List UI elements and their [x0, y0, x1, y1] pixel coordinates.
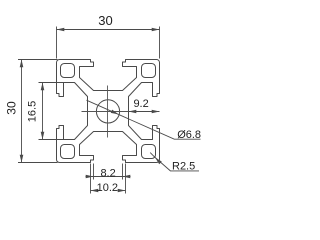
- leader line dia 6.8: [87, 100, 201, 139]
- corner cavity bottom-right: [142, 145, 156, 159]
- corner cavity top-right: [142, 64, 156, 78]
- dim 10.2: right extension line: [125, 164, 127, 194]
- dim 16.5: dimension line: [42, 83, 44, 140]
- dim 30 left: bottom extension line: [18, 162, 58, 164]
- svg-text:R2.5: R2.5: [172, 161, 195, 173]
- dim 9.2: dimension line: [129, 111, 160, 113]
- dim 8.2: right extension line: [122, 164, 124, 180]
- dim 10.2: dimension line left segment: [91, 190, 97, 192]
- svg-text:16.5: 16.5: [26, 101, 38, 122]
- corner cavity bottom-left: [61, 145, 75, 159]
- center bore circle dia 6.8: [96, 100, 119, 123]
- dim 30 top: dimension line: [57, 29, 160, 31]
- dim 9.2 right arrow: [152, 110, 160, 114]
- dim 16.5 bottom arrow: [41, 132, 45, 140]
- svg-text:30: 30: [5, 101, 19, 115]
- dim 8.2 right outside arrow: [123, 175, 131, 179]
- dim 30 top: left extension line: [56, 27, 58, 59]
- dim 30 left: top extension line: [18, 59, 58, 61]
- svg-text:10.2: 10.2: [97, 182, 118, 194]
- leader line R2.5: [150, 153, 199, 171]
- dim 8.2: dimension line with outside tails: [86, 176, 131, 178]
- dim 16.5: bottom extension line: [39, 139, 65, 141]
- dim 9.2 left arrow: [129, 110, 137, 114]
- dim 10.2: dimension line right segment: [119, 190, 126, 192]
- dim 30 left bottom arrow: [20, 155, 24, 163]
- dim 10.2 right arrow: [118, 189, 126, 193]
- svg-text:30: 30: [98, 13, 112, 28]
- dim 30 top: right extension line: [159, 27, 161, 59]
- dim 30 top right arrow: [152, 28, 160, 32]
- dim 30 left: dimension line: [21, 60, 23, 163]
- dim 10.2 left arrow: [91, 189, 99, 193]
- dim 10.2: left extension line: [90, 164, 92, 194]
- profile outline 30x30 extrusion body: [57, 60, 160, 163]
- centerline horizontal: [82, 111, 134, 113]
- dim 16.5 top arrow: [41, 83, 45, 91]
- svg-text:8.2: 8.2: [100, 168, 115, 180]
- svg-text:Ø6.8: Ø6.8: [177, 129, 201, 141]
- dim 30 top left arrow: [57, 28, 65, 32]
- dim 8.2: left extension line: [93, 164, 95, 180]
- leader dia 6.8 arrow: [111, 110, 119, 115]
- leader R2.5 arrow: [155, 157, 162, 164]
- centerline vertical: [107, 86, 109, 138]
- dim 30 left top arrow: [20, 60, 24, 68]
- svg-text:9.2: 9.2: [133, 98, 148, 110]
- corner cavity top-left: [61, 64, 75, 78]
- dim 16.5: top extension line: [39, 82, 65, 84]
- dim 8.2 left outside arrow: [86, 175, 94, 179]
